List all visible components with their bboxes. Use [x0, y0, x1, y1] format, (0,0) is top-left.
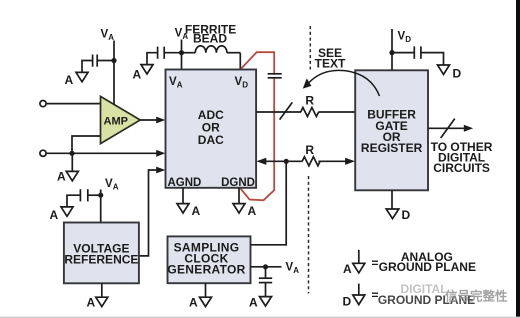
svg-text:D: D — [402, 208, 411, 222]
voltage reference U3 — [64, 223, 139, 284]
node VA clock supply — [286, 262, 300, 276]
wire AGND pin — [182, 188, 184, 204]
node junction — [263, 264, 268, 269]
wire VREF ground pin — [101, 283, 103, 297]
node junction — [98, 193, 103, 198]
svg-text:A: A — [249, 296, 258, 310]
wire DGND pin — [238, 188, 240, 204]
svg-text:信号完整性: 信号完整性 — [445, 289, 508, 304]
ground A (input) — [57, 170, 78, 184]
wire — [251, 266, 282, 268]
svg-text:A: A — [248, 204, 257, 218]
wire — [391, 29, 393, 70]
op-amp U1 AMP — [101, 96, 141, 143]
node junction — [111, 58, 116, 63]
wire clock generator ground pin — [205, 283, 207, 297]
svg-text:BEAD: BEAD — [193, 32, 227, 46]
node VA amp supply — [101, 29, 115, 43]
node label TO OTHER DIGITAL CIRCUITS — [431, 140, 493, 175]
wire — [82, 61, 93, 73]
node VA converter supply — [175, 28, 189, 42]
wire — [265, 283, 267, 297]
svg-text:GENERATOR: GENERATOR — [167, 262, 245, 276]
svg-text:CIRCUITS: CIRCUITS — [433, 161, 490, 175]
border line bottom — [0, 317, 520, 318]
svg-text:A: A — [57, 170, 66, 184]
wire buffer output — [428, 125, 473, 132]
wire — [46, 150, 165, 157]
wire data bus lower (bidirectional) — [256, 158, 355, 165]
svg-text:A: A — [133, 68, 142, 82]
net split dashed line (upper) — [309, 26, 311, 70]
node junction — [179, 50, 184, 55]
svg-text:V: V — [235, 76, 243, 88]
node VA reference supply — [105, 178, 119, 192]
wire — [392, 52, 414, 54]
svg-text:A: A — [293, 266, 299, 275]
wire — [147, 53, 158, 65]
svg-text:AGND: AGND — [168, 177, 202, 189]
wire curved annotation arrow — [303, 70, 380, 96]
wire — [72, 136, 100, 153]
svg-text:V: V — [105, 178, 113, 190]
wire bead to VD pin — [239, 53, 241, 70]
svg-text:A: A — [50, 208, 59, 222]
svg-text:D: D — [453, 67, 462, 81]
ground D (buffer) — [386, 208, 410, 222]
wire — [265, 267, 267, 278]
ground A (C1) — [65, 72, 89, 87]
capacitor C3 (red path) — [268, 74, 282, 78]
ground A (C6) — [249, 296, 272, 310]
node junction bus/clock — [284, 159, 289, 164]
svg-text:A: A — [343, 262, 352, 276]
svg-text:DAC: DAC — [198, 133, 224, 147]
resistor R2 — [302, 143, 320, 166]
inductor L1 ferrite bead — [182, 22, 241, 52]
svg-text:A: A — [177, 81, 183, 90]
svg-text:GROUND PLANE: GROUND PLANE — [379, 260, 476, 274]
svg-text:=: = — [372, 256, 379, 270]
capacitor C5 — [414, 46, 421, 58]
ground legend A symbol — [343, 250, 379, 276]
svg-text:D: D — [405, 35, 411, 44]
wire — [165, 52, 182, 54]
node input terminal J1 — [40, 101, 46, 107]
svg-text:REGISTER: REGISTER — [361, 141, 423, 155]
wire VREF to converter — [139, 167, 165, 256]
svg-text:V: V — [398, 31, 406, 43]
ground legend D symbol — [343, 284, 379, 309]
ground A (C4) — [50, 207, 74, 222]
node input terminal J2 — [40, 150, 46, 156]
svg-text:V: V — [169, 76, 177, 88]
svg-text:DGND: DGND — [221, 177, 255, 189]
ground A (C2) — [133, 65, 154, 82]
wire — [46, 103, 100, 105]
ground A (clock) — [189, 296, 212, 310]
capacitor C6 — [259, 278, 272, 282]
svg-text:A: A — [87, 296, 96, 310]
buffer U5 — [355, 70, 428, 190]
node VD buffer supply — [398, 31, 412, 45]
svg-text:V: V — [175, 28, 183, 40]
svg-text:A: A — [189, 296, 198, 310]
ground A (AGND) — [177, 204, 201, 218]
svg-text:R: R — [305, 143, 314, 157]
ground A (VREF) — [87, 296, 108, 310]
wire red decoupling path VD to DGND — [240, 52, 274, 200]
sampling clock generator U4 — [167, 236, 250, 283]
converter U2 ADC or DAC — [166, 70, 257, 189]
node label ANALOG GROUND PLANE — [379, 250, 476, 274]
node label SEE TEXT — [315, 46, 346, 70]
resistor R1 — [301, 94, 319, 117]
wire — [71, 153, 73, 171]
svg-text:D: D — [242, 81, 248, 90]
wire — [113, 41, 115, 106]
svg-text:D: D — [343, 294, 352, 308]
bus slash upper — [280, 102, 293, 119]
wire amp output — [140, 117, 165, 124]
node junction — [69, 151, 74, 156]
svg-text:A: A — [192, 204, 201, 218]
wire — [421, 53, 444, 65]
svg-text:A: A — [65, 73, 74, 87]
svg-text:R: R — [305, 94, 314, 108]
svg-text:V: V — [101, 29, 109, 41]
svg-text:A: A — [113, 183, 119, 192]
net split dashed line (lower) — [308, 176, 310, 294]
svg-text:REFERENCE: REFERENCE — [64, 252, 138, 266]
border band right — [516, 0, 520, 318]
watermark — [445, 289, 508, 304]
wire — [97, 60, 114, 62]
svg-text:AMP: AMP — [104, 116, 128, 128]
wire — [88, 194, 101, 196]
node junction — [389, 50, 394, 55]
wire — [67, 195, 80, 207]
bus slash output — [441, 119, 455, 138]
capacitor C4 — [80, 189, 87, 201]
node label DIGITAL GROUND PLANE — [378, 282, 475, 307]
wire clock output to bus — [251, 161, 287, 245]
svg-text:V: V — [286, 262, 294, 274]
ground A (DGND) — [233, 204, 257, 218]
wire — [100, 190, 102, 223]
svg-text:TEXT: TEXT — [315, 57, 346, 71]
ground D (C5) — [438, 65, 462, 81]
wire — [181, 40, 183, 70]
wire buffer ground pin — [391, 190, 393, 209]
wire data bus upper — [256, 111, 355, 113]
capacitor C2 — [158, 47, 165, 59]
capacitor C1 — [93, 55, 98, 67]
